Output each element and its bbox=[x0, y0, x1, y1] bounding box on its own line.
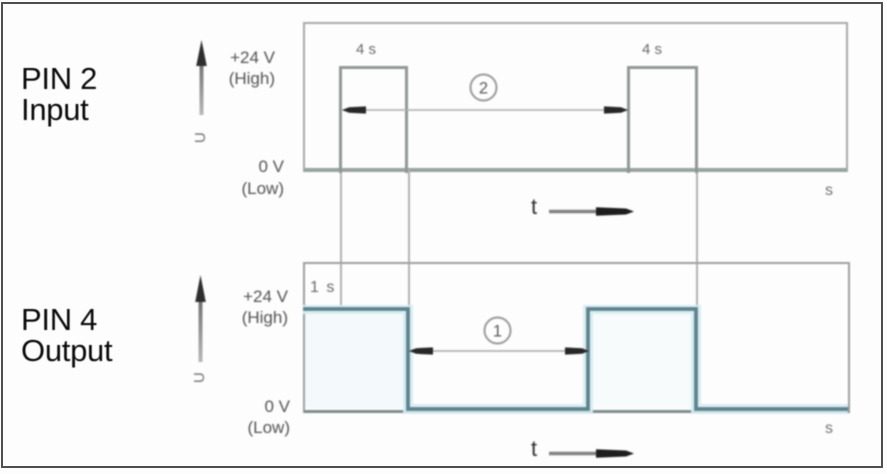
connector rising edge pulse1 down bbox=[340, 170, 342, 308]
1 s label bbox=[310, 279, 336, 297]
top period dimension arrow bbox=[341, 100, 629, 120]
top 0V Low label bbox=[160, 156, 284, 200]
top plot box bbox=[303, 22, 848, 172]
bottom pause dimension arrow bbox=[408, 341, 590, 361]
connector falling edge pulse2 down bbox=[696, 170, 698, 309]
top U axis arrow bbox=[192, 39, 212, 119]
output pulse interior tint 2 bbox=[590, 311, 695, 408]
bottom t axis label bbox=[531, 436, 537, 462]
connector falling edge pulse1 down bbox=[408, 170, 410, 309]
top U axis label bbox=[192, 125, 210, 143]
output pulse interior tint 1 bbox=[305, 311, 406, 408]
bottom U axis arrow bbox=[191, 272, 211, 364]
top pulse width label 4 s (pulse 1) bbox=[356, 41, 376, 58]
input pulse 2 bbox=[627, 66, 698, 173]
circled 1 bbox=[482, 315, 514, 347]
top pulse width label 4 s (pulse 2) bbox=[642, 41, 662, 58]
bottom U axis label bbox=[191, 365, 209, 383]
top s unit label bbox=[825, 182, 833, 200]
bottom +24V High label bbox=[165, 286, 288, 328]
bottom 0V Low label bbox=[165, 396, 290, 438]
bottom plot box bbox=[303, 262, 850, 413]
top +24V High label bbox=[150, 47, 275, 89]
svg-text:1: 1 bbox=[493, 323, 502, 341]
output waveform bbox=[300, 305, 852, 415]
input pulse 1 bbox=[339, 66, 408, 173]
label PIN 4 Output bbox=[21, 304, 112, 366]
top t arrow bbox=[546, 202, 638, 220]
bottom t arrow bbox=[546, 444, 638, 462]
bottom s unit label bbox=[825, 420, 833, 438]
circled 2 bbox=[468, 72, 500, 104]
top t axis label bbox=[531, 194, 537, 220]
label PIN 2 Input bbox=[21, 63, 97, 125]
svg-text:2: 2 bbox=[479, 80, 488, 98]
